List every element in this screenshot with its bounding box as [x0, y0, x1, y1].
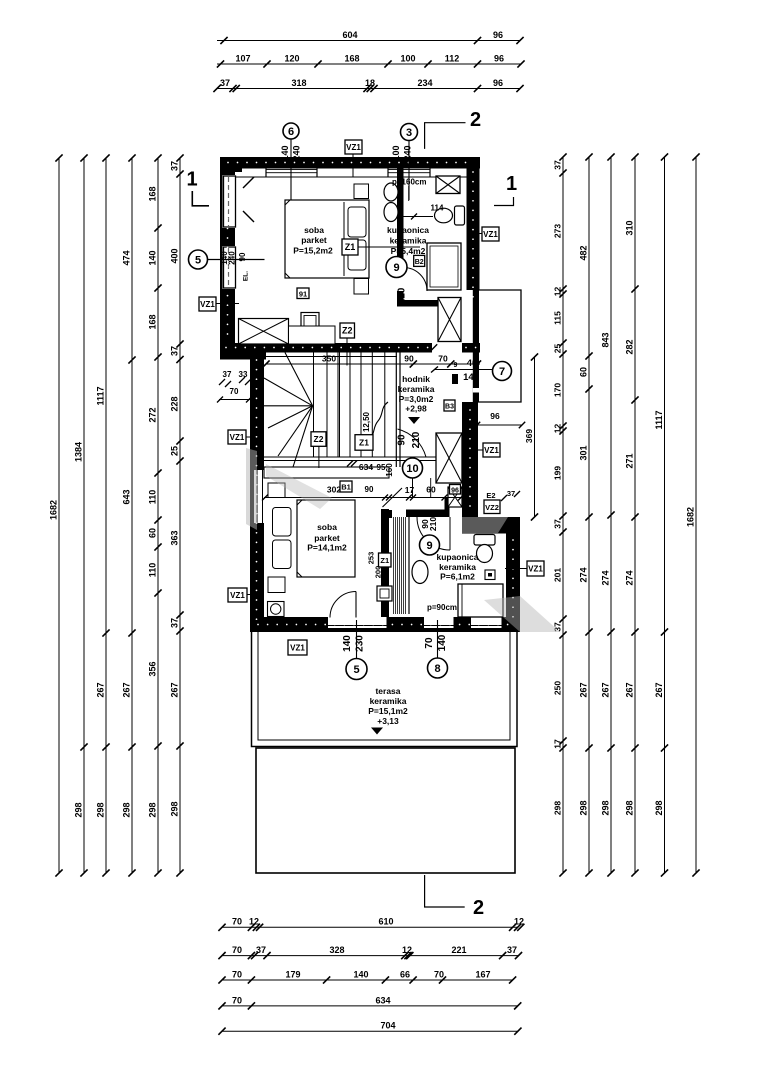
svg-text:5: 5 — [353, 664, 359, 676]
rotated dims 253/200 — [367, 552, 383, 579]
svg-text:kupaonica: kupaonica — [436, 552, 478, 562]
svg-text:2: 2 — [473, 897, 484, 919]
svg-text:40: 40 — [467, 358, 478, 369]
room label bedroom1 — [293, 225, 333, 256]
svg-text:298: 298 — [169, 801, 179, 816]
svg-text:9: 9 — [426, 540, 432, 552]
label box Z1 stairs — [355, 435, 373, 451]
svg-text:96: 96 — [493, 78, 503, 88]
svg-text:VZ1: VZ1 — [483, 230, 498, 239]
svg-text:282: 282 — [624, 339, 634, 354]
toilet bathroom2 — [474, 535, 495, 563]
svg-text:240: 240 — [292, 145, 302, 160]
svg-text:5: 5 — [195, 254, 201, 266]
svg-text:12: 12 — [249, 917, 259, 927]
label box VZ1 right3 — [527, 561, 544, 576]
svg-text:168: 168 — [344, 53, 359, 63]
dimension line stair 350 — [262, 353, 481, 367]
svg-text:soba: soba — [317, 522, 337, 532]
dimension line left L4 — [121, 154, 135, 876]
svg-text:66: 66 — [400, 969, 410, 979]
svg-text:1: 1 — [506, 173, 517, 195]
shower valve double square — [377, 586, 392, 601]
label box Z2 bedroom1 with leader — [346, 338, 348, 366]
position mark circle 7 — [493, 362, 512, 381]
svg-text:199: 199 — [552, 466, 562, 480]
svg-text:610: 610 — [378, 917, 393, 927]
svg-text:228: 228 — [169, 396, 179, 411]
door swing marks balcony door — [243, 177, 254, 188]
svg-text:Z1: Z1 — [345, 242, 356, 252]
window frame top window1 — [266, 169, 317, 178]
washbasin bathroom1 — [384, 183, 398, 201]
section marker 2 top — [425, 109, 481, 149]
label box Z1 bedroom1 with leader — [358, 246, 420, 248]
door arc bathroom1 — [404, 268, 428, 292]
label box B2 — [414, 255, 425, 266]
svg-text:soba: soba — [304, 225, 324, 235]
svg-text:230: 230 — [355, 635, 366, 652]
window opening bottom bedroom2 — [424, 617, 454, 628]
label box VZ1 left1 — [199, 297, 216, 311]
svg-text:310: 310 — [624, 220, 634, 235]
ventilation shaft crossed box hodnik — [436, 433, 462, 483]
roof outline below terrace — [256, 748, 515, 873]
svg-text:115: 115 — [552, 311, 562, 325]
svg-text:10: 10 — [406, 463, 418, 475]
label box VZ1 left2 — [228, 430, 246, 444]
stair treads — [314, 353, 401, 468]
watermark gray band B — [266, 464, 332, 509]
svg-text:VZ1: VZ1 — [528, 565, 543, 574]
svg-text:1: 1 — [186, 169, 197, 191]
svg-text:90: 90 — [397, 434, 408, 446]
label box VZ1 right2 — [483, 443, 500, 457]
elevation triangle terrace — [371, 728, 383, 735]
watermark gray band D — [484, 596, 560, 632]
room label bathroom1 — [387, 225, 429, 256]
svg-text:Z2: Z2 — [342, 326, 353, 336]
dim 96 below deck — [474, 411, 525, 428]
terrace inner border — [258, 632, 510, 740]
label box Z2 bedroom1 — [340, 323, 355, 338]
svg-text:18: 18 — [365, 78, 375, 88]
insulation dots on walls — [225, 162, 514, 626]
dimension line top row2 — [217, 53, 525, 67]
leader line from circle 3 — [408, 141, 410, 201]
svg-text:253: 253 — [367, 552, 376, 565]
door opening bathroom1 — [397, 267, 404, 291]
svg-text:P=5,4m2: P=5,4m2 — [391, 246, 426, 256]
svg-text:298: 298 — [147, 802, 157, 817]
svg-text:170: 170 — [552, 383, 562, 397]
bed bedroom2 — [273, 500, 356, 577]
svg-text:keramika: keramika — [398, 384, 435, 394]
dimension line top row3 — [213, 78, 523, 92]
svg-text:474: 474 — [121, 250, 131, 265]
svg-text:210: 210 — [428, 517, 438, 531]
svg-text:37: 37 — [169, 161, 179, 171]
svg-text:B2: B2 — [415, 259, 424, 266]
svg-text:VZ1: VZ1 — [230, 433, 245, 442]
label box 91 floor — [297, 288, 309, 299]
svg-text:70: 70 — [424, 637, 435, 649]
svg-text:100: 100 — [391, 145, 401, 160]
svg-text:168: 168 — [147, 186, 157, 201]
svg-text:1682: 1682 — [685, 507, 695, 527]
wall bathroom1 bottom — [397, 300, 438, 307]
svg-text:17: 17 — [552, 739, 562, 749]
svg-text:70: 70 — [232, 969, 242, 979]
room label bedroom2 — [307, 522, 347, 553]
rotated window size labels top window1 — [280, 145, 302, 160]
dimension line right R6 — [685, 153, 699, 876]
position mark circle 5 terrace — [346, 659, 367, 680]
svg-text:267: 267 — [121, 682, 131, 697]
svg-text:1117: 1117 — [95, 386, 105, 405]
svg-text:843: 843 — [600, 332, 610, 347]
svg-text:96: 96 — [451, 487, 459, 494]
svg-text:2: 2 — [470, 109, 481, 131]
small drain box hodnik — [452, 374, 458, 384]
bathtub bathroom2 — [458, 584, 503, 617]
svg-text:363: 363 — [169, 530, 179, 545]
section marker 2 bottom — [425, 875, 484, 919]
svg-text:400: 400 — [169, 248, 179, 263]
svg-text:274: 274 — [624, 570, 634, 585]
door bedroom2 to terrace — [330, 592, 356, 618]
position mark circle 3 — [401, 124, 418, 141]
cabinet bedroom1 — [289, 326, 336, 344]
ventilation shaft crossed box vestibule — [438, 298, 461, 342]
stair bottom edge lines — [264, 456, 460, 458]
svg-text:482: 482 — [578, 245, 588, 260]
dimension line left L5 — [147, 154, 161, 876]
svg-text:301: 301 — [578, 445, 588, 460]
svg-text:EL.: EL. — [243, 271, 250, 281]
elevation triangle hodnik — [408, 417, 420, 424]
position mark circle 10 — [403, 458, 423, 478]
wall bedroom2 top thin — [264, 467, 389, 478]
svg-text:267: 267 — [600, 682, 610, 697]
dimension line left L1 — [48, 154, 62, 876]
svg-text:9: 9 — [454, 362, 458, 369]
svg-text:kupaonica: kupaonica — [387, 225, 429, 235]
door leaf bedroom2 entrance — [383, 488, 403, 507]
inner wall face line below top wall — [235, 176, 467, 178]
label box Z1 bathroom2 — [379, 553, 392, 567]
svg-text:200: 200 — [374, 566, 383, 579]
svg-text:96: 96 — [490, 411, 500, 421]
svg-text:P=14,1m2: P=14,1m2 — [307, 543, 347, 553]
svg-text:70: 70 — [232, 945, 242, 955]
window frame top window2 — [388, 169, 430, 178]
svg-text:VZ1: VZ1 — [230, 591, 245, 600]
svg-text:271: 271 — [624, 453, 634, 468]
svg-text:112: 112 — [445, 53, 460, 63]
svg-text:114: 114 — [431, 204, 444, 213]
rotated window size labels left window — [220, 251, 250, 281]
stair top tread edge — [264, 356, 397, 358]
svg-text:369: 369 — [524, 429, 534, 443]
leader line from circle 6 — [290, 139, 292, 203]
svg-text:298: 298 — [73, 802, 83, 817]
svg-text:60: 60 — [578, 367, 588, 377]
window opening stairs/bedroom2 left wall — [254, 470, 266, 523]
svg-text:VZ1: VZ1 — [346, 143, 361, 152]
dimension line right R5 — [654, 153, 668, 876]
svg-text:96: 96 — [493, 30, 503, 40]
square table bedroom1 — [301, 313, 319, 330]
position mark circle 8 terrace — [428, 658, 448, 678]
nightstand bottom bedroom2 — [268, 577, 285, 593]
stair run dim 634 — [347, 461, 386, 473]
svg-text:604: 604 — [342, 30, 357, 40]
svg-text:25: 25 — [552, 344, 562, 354]
svg-text:P=15,1m2: P=15,1m2 — [368, 706, 408, 716]
svg-text:298: 298 — [600, 800, 610, 815]
wall partition bedroom1/bathroom1 — [397, 169, 404, 307]
svg-text:267: 267 — [624, 682, 634, 697]
svg-text:302: 302 — [327, 485, 341, 495]
svg-text:37: 37 — [169, 346, 179, 356]
interior dim line bedroom2 302/90/17/60 — [262, 485, 464, 501]
dimension line right R4 — [624, 153, 638, 876]
door opening in wall to hodnik — [432, 343, 462, 353]
svg-text:3: 3 — [406, 127, 412, 139]
svg-text:221: 221 — [451, 945, 466, 955]
micro dims 37 33 left of stairs — [219, 370, 251, 387]
svg-text:70: 70 — [434, 969, 444, 979]
svg-text:Z1: Z1 — [359, 437, 369, 447]
svg-text:267: 267 — [654, 682, 664, 697]
svg-text:keramika: keramika — [390, 236, 427, 246]
svg-text:298: 298 — [95, 802, 105, 817]
svg-text:P=6,1m2: P=6,1m2 — [440, 572, 475, 582]
leader line circle 5 terrace — [356, 620, 358, 659]
dimension line bottom row4 — [218, 995, 521, 1009]
svg-text:37: 37 — [169, 618, 179, 628]
svg-text:+2,98: +2,98 — [405, 404, 427, 414]
svg-text:240: 240 — [228, 251, 237, 265]
position mark circle 9 bathroom2 — [420, 535, 440, 555]
wall bottom exterior — [250, 617, 520, 632]
rotated window size labels top window2 — [391, 145, 413, 160]
dimension line 369 inner right — [524, 353, 538, 520]
svg-text:90: 90 — [365, 485, 374, 494]
svg-text:VZ1: VZ1 — [200, 300, 215, 309]
leader line from circle 5 left — [207, 259, 265, 261]
position mark circle 9 bathroom1 — [386, 257, 407, 278]
dim 114 toilet — [404, 204, 445, 220]
door arc bathroom2 — [417, 517, 450, 550]
label box VZ1 top — [345, 140, 362, 154]
wall right lower block — [506, 534, 520, 632]
shower glass hatch lines — [394, 517, 410, 614]
svg-text:8: 8 — [434, 663, 440, 675]
svg-text:keramika: keramika — [370, 696, 407, 706]
svg-text:12: 12 — [552, 424, 562, 434]
svg-text:100: 100 — [400, 53, 415, 63]
svg-text:1117: 1117 — [654, 410, 664, 429]
svg-text:70: 70 — [232, 995, 242, 1005]
svg-text:6: 6 — [288, 126, 294, 138]
svg-text:179: 179 — [285, 969, 300, 979]
svg-text:parket: parket — [314, 533, 340, 543]
svg-text:110: 110 — [147, 563, 157, 578]
door arc hodnik — [398, 429, 427, 457]
svg-text:P=15,2m2: P=15,2m2 — [293, 246, 333, 256]
leader line circle 7 — [435, 369, 493, 371]
rotated window size 70/140 terrace — [424, 634, 448, 651]
washing machine bedroom2 corner — [268, 602, 285, 617]
terrace outer border — [252, 632, 518, 747]
nightstand bottom right bedroom1 — [354, 279, 369, 295]
label box 96 box — [450, 485, 461, 495]
stair break line — [368, 402, 388, 441]
svg-text:37: 37 — [552, 160, 562, 170]
wall thin right along deck — [473, 290, 479, 402]
nightstand top bedroom2 — [268, 483, 285, 498]
wall top exterior — [220, 157, 480, 169]
window opening left bedroom1 — [223, 246, 237, 289]
svg-text:B1: B1 — [341, 483, 351, 492]
svg-text:643: 643 — [121, 489, 131, 504]
wall partition bedroom2/bathroom2 — [381, 509, 389, 620]
label box VZA left3 — [228, 588, 247, 602]
svg-text:634: 634 — [375, 995, 390, 1005]
svg-text:B3: B3 — [445, 404, 454, 411]
dimension line bottom row1 — [218, 917, 524, 931]
svg-text:167: 167 — [475, 969, 490, 979]
door opening bedroom2 — [381, 498, 389, 510]
svg-text:298: 298 — [121, 802, 131, 817]
svg-text:Z1: Z1 — [380, 556, 389, 565]
svg-text:350: 350 — [322, 353, 336, 363]
svg-text:60: 60 — [147, 528, 157, 538]
svg-text:267: 267 — [169, 682, 179, 697]
svg-text:terasa: terasa — [375, 686, 400, 696]
door size 90/210 rotated hodnik — [397, 431, 423, 448]
label box Z1 bedroom1 — [342, 239, 358, 255]
label E2 and 37 tick near VZ2 — [486, 489, 520, 501]
room label terrace — [368, 686, 408, 726]
svg-text:120: 120 — [284, 53, 299, 63]
wall right exterior upper block — [467, 157, 480, 290]
svg-text:VZ2: VZ2 — [485, 503, 499, 512]
dimension line right R1 — [552, 153, 566, 876]
svg-text:274: 274 — [600, 570, 610, 585]
leader line circle 10 — [412, 478, 414, 498]
svg-text:7: 7 — [499, 366, 505, 378]
svg-text:P=3,0m2: P=3,0m2 — [399, 394, 434, 404]
wall bathroom2 top — [406, 510, 449, 518]
svg-text:+3,13: +3,13 — [377, 716, 399, 726]
svg-text:140: 140 — [463, 372, 479, 383]
dimension line right R2 — [578, 153, 592, 876]
svg-text:60: 60 — [426, 485, 436, 495]
stair winder radiating treads — [264, 353, 313, 468]
door opening terrace sliding door — [328, 617, 387, 628]
svg-text:201: 201 — [552, 568, 562, 582]
position mark circle 6 — [283, 123, 299, 139]
dimension line left L2 — [73, 154, 87, 876]
svg-text:E2: E2 — [486, 491, 495, 500]
leader line circle 8 terrace — [437, 620, 439, 658]
ventilation shaft crossed box bathroom1 — [436, 176, 460, 194]
watermark gray band A — [246, 448, 257, 530]
svg-text:33: 33 — [239, 370, 248, 379]
svg-text:107: 107 — [235, 53, 250, 63]
wall left stairs and bedroom2 — [250, 353, 264, 632]
label box VZ1 terrace — [288, 640, 307, 655]
label box VZ2 — [484, 500, 500, 514]
bed bedroom1 — [285, 200, 369, 278]
svg-text:37: 37 — [223, 370, 232, 379]
svg-text:12: 12 — [402, 945, 412, 955]
svg-text:210: 210 — [411, 431, 422, 448]
svg-text:318: 318 — [291, 78, 306, 88]
svg-text:274: 274 — [578, 567, 588, 582]
svg-text:298: 298 — [624, 800, 634, 815]
svg-text:168: 168 — [147, 314, 157, 329]
svg-text:hodnik: hodnik — [402, 374, 430, 384]
dimension line left L6 — [169, 154, 183, 876]
svg-text:p=160cm: p=160cm — [392, 178, 426, 187]
svg-text:37: 37 — [256, 945, 266, 955]
svg-text:140: 140 — [147, 250, 157, 265]
svg-text:298: 298 — [552, 801, 562, 815]
rotated door size 140/230 terrace — [342, 635, 366, 652]
svg-text:240: 240 — [403, 145, 413, 160]
label box B1 — [340, 481, 352, 492]
dimension line top row1 604/96 — [217, 30, 524, 44]
toilet bathroom1 — [435, 206, 465, 225]
nightstand top right bedroom1 — [354, 184, 369, 199]
svg-text:328: 328 — [329, 945, 344, 955]
room label bathroom2 — [436, 552, 478, 582]
watermark gray band C — [462, 517, 508, 533]
svg-text:Z2: Z2 — [314, 434, 324, 444]
washbasin bathroom2 — [412, 561, 428, 584]
label box Z2 stairs — [311, 432, 326, 447]
svg-text:250: 250 — [552, 681, 562, 695]
svg-text:210: 210 — [397, 287, 408, 304]
svg-text:110: 110 — [147, 490, 157, 505]
svg-text:25: 25 — [169, 446, 179, 456]
svg-text:140: 140 — [353, 969, 368, 979]
label box Z2 stairs with leader — [318, 446, 320, 468]
wall between upper room and stairs — [220, 343, 480, 353]
svg-text:267: 267 — [95, 682, 105, 697]
svg-text:parket: parket — [301, 235, 327, 245]
svg-text:70: 70 — [230, 387, 239, 396]
svg-text:140: 140 — [280, 145, 290, 160]
micro dim 70 left of stairs — [217, 387, 252, 403]
wall right middle block — [462, 402, 478, 522]
dimension line right R3 — [600, 153, 614, 876]
svg-text:12: 12 — [552, 287, 562, 297]
svg-text:VZ1: VZ1 — [484, 446, 499, 455]
svg-text:70: 70 — [438, 353, 448, 363]
svg-text:96: 96 — [494, 53, 504, 63]
open deck outline right of hodnik — [478, 290, 521, 402]
svg-text:272: 272 — [147, 407, 157, 422]
window opening left balcony door — [223, 175, 237, 228]
svg-text:70: 70 — [232, 917, 242, 927]
svg-text:17: 17 — [405, 485, 415, 495]
svg-text:p=90cm: p=90cm — [427, 603, 457, 612]
